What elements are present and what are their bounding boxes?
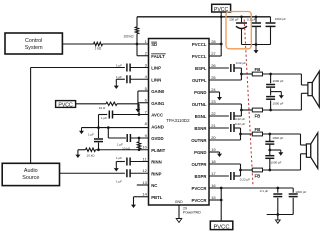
svg-text:1000 pF: 1000 pF <box>273 79 284 83</box>
svg-text:LINP: LINP <box>151 66 161 71</box>
svg-text:0.22 μF: 0.22 μF <box>235 117 245 121</box>
svg-text:18: 18 <box>211 159 216 164</box>
svg-text:27: 27 <box>211 51 216 56</box>
svg-text:RINN: RINN <box>151 160 162 165</box>
svg-text:PVCC: PVCC <box>58 102 73 108</box>
svg-text:SD: SD <box>151 42 157 47</box>
svg-text:28: 28 <box>211 39 216 44</box>
svg-text:21: 21 <box>211 123 216 128</box>
svg-text:BSPL: BSPL <box>195 66 207 71</box>
svg-text:12: 12 <box>142 168 147 173</box>
svg-text:1000 pF: 1000 pF <box>273 102 284 106</box>
svg-text:1 μF: 1 μF <box>116 156 122 160</box>
svg-text:Source: Source <box>22 175 39 181</box>
svg-text:FAULT: FAULT <box>151 54 165 59</box>
svg-text:PVCCR: PVCCR <box>191 186 207 191</box>
svg-text:GND: GND <box>175 200 183 204</box>
svg-text:1 μF: 1 μF <box>116 179 122 183</box>
svg-text:15: 15 <box>211 195 216 200</box>
svg-text:PBTL: PBTL <box>151 195 163 200</box>
svg-text:1000 pF: 1000 pF <box>295 190 306 194</box>
svg-text:1 μF: 1 μF <box>116 75 122 79</box>
svg-text:NC: NC <box>151 183 157 188</box>
svg-text:1000 pF: 1000 pF <box>275 17 286 21</box>
svg-text:PVCCL: PVCCL <box>192 42 207 47</box>
svg-text:26: 26 <box>211 63 216 68</box>
svg-text:PVCC: PVCC <box>213 224 229 230</box>
svg-text:10 Ω: 10 Ω <box>99 106 106 110</box>
svg-text:1 μF: 1 μF <box>101 116 107 120</box>
svg-text:OUTPL: OUTPL <box>192 78 207 83</box>
svg-text:FB: FB <box>254 127 260 132</box>
svg-text:17: 17 <box>211 171 216 176</box>
svg-text:0.22 μF: 0.22 μF <box>236 61 246 65</box>
svg-text:Audio: Audio <box>24 168 38 174</box>
svg-text:1000 pF: 1000 pF <box>271 160 282 164</box>
svg-text:FB: FB <box>254 173 260 178</box>
svg-text:10 kΩ: 10 kΩ <box>87 153 96 157</box>
svg-text:1 μF: 1 μF <box>116 64 122 68</box>
svg-text:16: 16 <box>211 183 216 188</box>
svg-text:22: 22 <box>211 111 216 116</box>
svg-text:FB: FB <box>254 67 260 72</box>
svg-text:GVDD: GVDD <box>151 136 163 141</box>
svg-text:TPA3110D2: TPA3110D2 <box>166 118 190 123</box>
svg-text:PowerPAD: PowerPAD <box>183 211 201 215</box>
svg-text:1 μF: 1 μF <box>88 133 94 137</box>
svg-text:1000 pF: 1000 pF <box>272 136 283 140</box>
svg-text:BSPR: BSPR <box>195 174 208 179</box>
svg-text:Control: Control <box>25 38 42 44</box>
svg-text:10: 10 <box>142 145 147 150</box>
svg-text:OUTNR: OUTNR <box>191 138 207 143</box>
svg-text:BSNL: BSNL <box>195 114 207 119</box>
svg-text:1 kΩ: 1 kΩ <box>95 47 102 51</box>
svg-text:PVCCL: PVCCL <box>192 54 207 59</box>
svg-text:24: 24 <box>211 87 216 92</box>
svg-text:AVCC: AVCC <box>151 113 163 118</box>
svg-text:0.22 μF: 0.22 μF <box>235 122 245 126</box>
svg-text:System: System <box>25 45 43 51</box>
svg-text:PVCCR: PVCCR <box>191 198 207 203</box>
svg-text:14: 14 <box>142 192 147 197</box>
svg-text:PGND: PGND <box>194 150 206 155</box>
svg-text:FB: FB <box>254 113 260 118</box>
svg-text:0.1 μF: 0.1 μF <box>260 189 269 193</box>
svg-text:25: 25 <box>211 75 216 80</box>
svg-text:OUTPR: OUTPR <box>191 162 207 167</box>
svg-text:100 kΩ: 100 kΩ <box>123 34 134 38</box>
svg-text:PLIMIT: PLIMIT <box>151 148 165 153</box>
svg-text:GAIN1: GAIN1 <box>151 101 165 106</box>
svg-text:BSNR: BSNR <box>194 126 207 131</box>
svg-text:GAIN0: GAIN0 <box>151 89 165 94</box>
svg-text:13: 13 <box>142 180 147 185</box>
svg-text:20: 20 <box>211 135 216 140</box>
svg-text:100 μF: 100 μF <box>229 18 239 22</box>
svg-text:AGND: AGND <box>151 124 164 129</box>
svg-text:23: 23 <box>211 99 216 104</box>
svg-text:PGND: PGND <box>194 90 206 95</box>
svg-text:OUTNL: OUTNL <box>192 102 207 107</box>
svg-text:LINN: LINN <box>151 77 161 82</box>
svg-text:19: 19 <box>211 147 216 152</box>
svg-text:0.22 μF: 0.22 μF <box>240 177 250 181</box>
svg-text:RINP: RINP <box>151 171 161 176</box>
